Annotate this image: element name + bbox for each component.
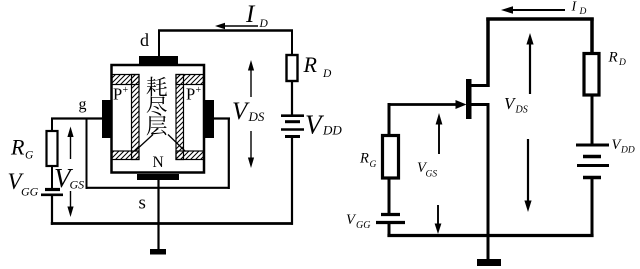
- wire: top drain wire: [158, 29, 293, 32]
- wire: drain vertical from device to top wire: [158, 30, 160, 57]
- wire: bottom rail (left circuit): [51, 222, 293, 225]
- wire: right branch vertical to R_D (right circuit): [590, 18, 594, 55]
- svg-text:g: g: [79, 96, 87, 113]
- voltage arrow V_GS up (right circuit): [436, 113, 443, 154]
- svg-text:+: +: [123, 85, 129, 96]
- wire: R_G to battery V_GG (right circuit): [388, 178, 391, 213]
- battery V_DD (left circuit): short plate 1: [285, 120, 300, 123]
- svg-text:d: d: [140, 30, 149, 50]
- voltage arrow V_GS up (left circuit): [67, 127, 73, 160]
- label V_DD (left circuit): [305, 110, 342, 140]
- battery V_DD (left circuit): long plate 1: [281, 114, 304, 117]
- svg-text:GS: GS: [70, 178, 85, 192]
- wire: source vertical down to ground: [157, 180, 159, 250]
- battery V_DD (right circuit): long plate 1: [576, 144, 609, 147]
- wire: top wire (right circuit): [486, 17, 593, 21]
- battery V_DD (right circuit): short plate 1: [583, 155, 601, 159]
- label R_D (right circuit): [608, 50, 627, 69]
- svg-text:D: D: [579, 7, 587, 17]
- wire: battery to bottom rail: [51, 196, 53, 225]
- voltage arrow V_DS down (right circuit): [524, 139, 531, 212]
- depletion region hatched: right P+ inner vertical strip: [176, 75, 184, 160]
- source metal contact (bottom black bar): [137, 174, 179, 180]
- gate metal contact right (black bar): [204, 100, 214, 138]
- transistor JFET: source lead: [469, 103, 490, 106]
- battery V_GG (left circuit): long positive plate: [41, 194, 63, 197]
- voltage arrow V_DS down (left circuit): [248, 131, 254, 168]
- wire: R_G to battery V_GG: [51, 166, 53, 189]
- wire: bottom rail (right circuit): [387, 234, 593, 237]
- transistor JFET: gate wire with arrowhead: [389, 100, 467, 109]
- depletion region hatched: left P+ bottom strip: [112, 151, 140, 160]
- wire: battery to bottom rail (right circuit): [388, 224, 391, 237]
- label V_GS (left circuit): [54, 163, 84, 193]
- svg-text:DD: DD: [322, 123, 342, 138]
- label V_GG (left circuit): [8, 169, 39, 199]
- drain metal contact (top black bar): [139, 56, 178, 64]
- label I_D (left circuit): [245, 1, 269, 30]
- wire: R_D to battery V_DD (right circuit): [591, 95, 594, 144]
- resistor R_G (right circuit): [383, 136, 399, 179]
- battery V_DD (right circuit): long plate 2: [577, 164, 609, 167]
- resistor R_D (right circuit): [584, 54, 599, 96]
- ground symbol (left circuit): [150, 249, 166, 255]
- wire: gate sense branch vertical (x=86): [86, 118, 88, 190]
- label V_DD (right circuit): [612, 137, 635, 156]
- wire: source vertical down through rail to ground (right circuit): [487, 103, 490, 260]
- depletion region hatched: left P+ inner vertical strip: [132, 75, 140, 160]
- depletion region hatched: left P+ top strip: [112, 75, 140, 85]
- label V_GS (right circuit): [417, 160, 437, 180]
- voltage arrow V_GS down (left circuit): [67, 191, 73, 217]
- wire: gate horizontal wire: [51, 117, 102, 119]
- battery V_GG (right circuit): long positive plate: [376, 221, 405, 224]
- svg-text:GG: GG: [356, 220, 370, 231]
- svg-text:DS: DS: [515, 105, 528, 116]
- svg-text:+: +: [196, 85, 202, 96]
- wire: gate branch vertical down to R_G (right circuit): [388, 103, 391, 136]
- battery V_DD (left circuit): long plate 2: [281, 128, 304, 131]
- label 耗 (depletion layer text char 1): [147, 77, 167, 97]
- label V_DS (right circuit): [504, 94, 528, 116]
- svg-text:R: R: [303, 52, 318, 77]
- label P+ (left region): [113, 85, 129, 104]
- depletion region hatched: right P+ top strip: [176, 75, 204, 85]
- label R_D (left circuit): [303, 52, 333, 80]
- label P+ (right region): [186, 85, 202, 104]
- wire: R_D to battery V_DD: [291, 81, 293, 115]
- label R_G (left circuit): [10, 135, 34, 162]
- wire: battery V_DD to bottom rail (right circuit): [591, 179, 594, 237]
- device body outline: [112, 65, 205, 173]
- current arrow I_D (right circuit): [501, 6, 565, 14]
- svg-text:R: R: [359, 151, 369, 167]
- voltage arrow V_DS up (right circuit): [526, 33, 533, 94]
- svg-text:DS: DS: [248, 109, 265, 124]
- svg-text:R: R: [10, 135, 25, 160]
- label R_G (right circuit): [359, 151, 377, 171]
- voltage arrow V_DS up (left circuit): [248, 60, 254, 97]
- svg-text:GG: GG: [21, 185, 39, 199]
- label I_D (right circuit): [571, 0, 587, 17]
- gate metal contact left (black bar): [102, 100, 111, 138]
- wire: drain vertical (right circuit): [486, 18, 490, 88]
- voltage arrow V_GS down (right circuit): [435, 205, 442, 234]
- label V_GG (right circuit): [346, 212, 370, 231]
- wire: right gate contact stub: [213, 117, 230, 119]
- label 层 (depletion layer text char 3): [147, 116, 167, 136]
- svg-text:DD: DD: [620, 146, 635, 156]
- svg-text:P: P: [113, 85, 122, 104]
- battery V_DD (right circuit): short plate 2: [583, 176, 601, 180]
- svg-text:GS: GS: [426, 170, 438, 180]
- resistor R_G (left circuit): [47, 131, 58, 166]
- svg-text:D: D: [259, 18, 269, 30]
- transistor JFET: drain lead: [469, 84, 490, 87]
- leader line right (depletion label to right hatched strip): [168, 135, 186, 152]
- battery V_GG (right circuit): short negative plate: [381, 213, 400, 216]
- current arrow I_D (left circuit): [215, 23, 258, 29]
- svg-text:D: D: [322, 68, 332, 80]
- svg-text:s: s: [139, 193, 146, 214]
- wire: battery V_DD to bottom rail: [291, 138, 293, 225]
- wire: left branch vertical down to R_G: [51, 118, 53, 132]
- battery V_GG (left circuit): short negative plate: [45, 188, 60, 191]
- svg-text:R: R: [608, 50, 618, 66]
- leader line left (depletion label to left hatched strip): [135, 135, 154, 152]
- svg-text:N: N: [153, 154, 164, 171]
- resistor R_D (left circuit): [287, 55, 298, 81]
- transistor JFET: channel bar: [466, 79, 472, 119]
- battery V_DD (left circuit): short plate 2: [285, 135, 300, 138]
- wire: gate loop bottom horizontal (y=188): [86, 187, 230, 189]
- svg-text:G: G: [25, 150, 34, 162]
- depletion region hatched: right P+ bottom strip: [176, 151, 204, 160]
- svg-text:G: G: [370, 160, 377, 170]
- svg-text:P: P: [186, 85, 195, 104]
- wire: right branch vertical to R_D: [291, 30, 293, 56]
- ground symbol (right circuit): [477, 259, 501, 266]
- wire: gate loop right vertical (x=229): [228, 118, 230, 190]
- label V_DS (left circuit): [232, 98, 265, 125]
- label 尽 (depletion layer text char 2): [147, 96, 167, 115]
- svg-text:D: D: [618, 58, 626, 68]
